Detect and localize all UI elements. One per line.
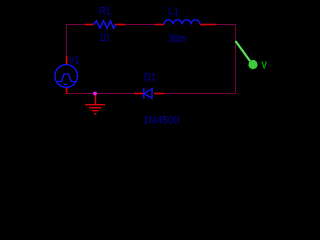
svg-text:V1: V1 [69, 55, 80, 67]
svg-text:L1: L1 [168, 6, 179, 18]
svg-text:30m: 30m [168, 33, 187, 45]
svg-text:R1: R1 [99, 6, 111, 18]
svg-text:10: 10 [99, 32, 109, 44]
svg-text:V: V [262, 61, 268, 72]
svg-text:D1: D1 [144, 72, 156, 84]
svg-text:1N4500: 1N4500 [143, 115, 180, 127]
